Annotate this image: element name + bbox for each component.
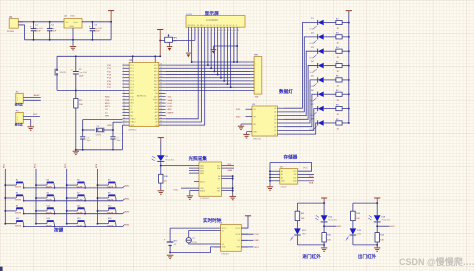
junction key 16 column xyxy=(97,223,99,225)
wire U4 VDD xyxy=(174,188,200,191)
net labels left lower xyxy=(105,97,111,118)
junction entry IR bottom xyxy=(323,244,325,246)
wire LCD backlight K xyxy=(233,31,235,62)
svg-text:SDA: SDA xyxy=(228,169,233,172)
svg-text:VCC1: VCC1 xyxy=(235,228,240,230)
svg-text:SW-PB: SW-PB xyxy=(15,187,22,189)
svg-text:D7: D7 xyxy=(229,25,231,27)
svg-text:PCF8591: PCF8591 xyxy=(201,198,210,200)
wire key 10 column stub xyxy=(36,210,47,212)
svg-text:继电器: 继电器 xyxy=(14,122,23,126)
wire key 11 column stub xyxy=(67,210,78,212)
svg-text:19: 19 xyxy=(123,120,125,122)
svg-text:WR: WR xyxy=(105,116,109,118)
wire entry IR output net xyxy=(324,226,342,228)
svg-text:Q6: Q6 xyxy=(274,130,276,132)
svg-text:XTAL2: XTAL2 xyxy=(130,118,135,121)
ic U3 led driver body xyxy=(252,104,278,141)
pins U4 analog inputs xyxy=(189,166,199,174)
svg-text:A13: A13 xyxy=(155,108,158,111)
svg-text:存储器: 存储器 xyxy=(284,154,298,161)
svg-text:RXD: RXD xyxy=(105,97,110,99)
wire LCD VSS down xyxy=(187,31,189,52)
svg-text:A14: A14 xyxy=(155,105,158,108)
junction key 7 column xyxy=(66,197,68,199)
wire P3 pin2 to gnd xyxy=(23,120,30,127)
svg-text:74HC595: 74HC595 xyxy=(253,138,262,140)
wire U4 SDA xyxy=(222,168,235,172)
junction key 2 bus xyxy=(54,187,56,189)
wire entry IR top xyxy=(297,202,324,204)
wire LCD VDD down xyxy=(191,31,193,62)
svg-text:X2: X2 xyxy=(222,244,224,246)
wire exit IR R to LED xyxy=(352,221,354,229)
wire U4 AGND xyxy=(190,191,199,196)
svg-text:SW-PB: SW-PB xyxy=(77,187,84,189)
wire exit IR output net xyxy=(377,226,395,228)
svg-text:LED: LED xyxy=(310,29,314,31)
label display block xyxy=(205,10,220,17)
wire U6 SCLK xyxy=(241,234,259,236)
svg-text:10K: 10K xyxy=(356,218,360,220)
wire key row 3 bus xyxy=(24,213,123,215)
net label column 2 xyxy=(34,163,36,168)
corner mark xyxy=(0,267,3,271)
net label row 1 xyxy=(123,186,130,188)
svg-text:SW-PB: SW-PB xyxy=(15,225,22,227)
svg-text:KG1: KG1 xyxy=(337,226,342,228)
svg-text:SW-PB: SW-PB xyxy=(60,72,67,74)
LED D6 xyxy=(310,90,324,103)
wires U3 outputs to LEDs xyxy=(284,23,318,135)
svg-text:Photo Sen: Photo Sen xyxy=(166,159,175,162)
svg-text:KG2: KG2 xyxy=(390,226,395,228)
wire XTAL2 from MCU xyxy=(113,121,122,123)
svg-text:E: E xyxy=(203,25,204,27)
svg-text:C7: C7 xyxy=(117,137,119,139)
svg-text:Q0: Q0 xyxy=(274,108,276,110)
label light sensing xyxy=(188,155,208,162)
capacitor C1 100uF xyxy=(30,22,44,40)
svg-text:INT1: INT1 xyxy=(130,103,134,105)
wire R8 to VCC rail xyxy=(342,108,349,110)
svg-text:X1: X1 xyxy=(222,230,224,232)
wire key 3 column stub xyxy=(67,184,78,186)
junction cap bottom xyxy=(75,89,77,91)
svg-text:A8: A8 xyxy=(156,124,158,127)
svg-text:SW-PB: SW-PB xyxy=(15,200,22,202)
svg-text:XTAL1: XTAL1 xyxy=(130,121,135,124)
svg-text:A15: A15 xyxy=(155,102,158,105)
svg-text:30: 30 xyxy=(160,95,162,97)
lcd display LCD1602 body xyxy=(186,16,245,28)
svg-text:DAT: DAT xyxy=(255,239,260,242)
svg-text:AD2: AD2 xyxy=(154,73,157,76)
label exit IR xyxy=(358,253,377,260)
junction key 6 bus xyxy=(54,200,56,202)
svg-text:KG2: KG2 xyxy=(236,116,241,118)
svg-text:26: 26 xyxy=(160,108,162,110)
svg-text:34: 34 xyxy=(160,83,162,85)
svg-text:LED: LED xyxy=(357,234,361,236)
svg-text:40: 40 xyxy=(160,64,162,66)
wire key row 4 bus xyxy=(24,226,123,228)
svg-text:LED: LED xyxy=(310,115,314,117)
wire U2 GND stem xyxy=(72,28,74,46)
wire photodiode to R xyxy=(160,161,162,174)
pin U3 input 1 xyxy=(236,109,252,111)
wire LED D3 to resistor xyxy=(324,50,336,52)
svg-text:P1.3: P1.3 xyxy=(130,74,134,76)
svg-text:Q7: Q7 xyxy=(274,134,276,136)
svg-text:39: 39 xyxy=(160,67,162,69)
microcontroller U1 right pins 21-40 xyxy=(153,64,166,127)
wire LED D2 to resistor xyxy=(324,36,336,38)
net label column 1 xyxy=(4,163,6,168)
svg-text:INT0: INT0 xyxy=(105,103,111,105)
wire battery to ground rail xyxy=(169,245,171,252)
svg-text:C6: C6 xyxy=(87,137,89,139)
junction exit IR output xyxy=(376,225,378,227)
wire exit IR bottom rail xyxy=(353,244,377,246)
capacitor C5 10uF reset xyxy=(71,56,88,90)
wire U5 WP xyxy=(298,173,314,175)
svg-text:KG2: KG2 xyxy=(168,106,173,108)
svg-text:SW-PB: SW-PB xyxy=(46,200,53,202)
junction key 12 column xyxy=(97,210,99,212)
svg-text:38: 38 xyxy=(160,70,162,72)
junction U2 gnd rail xyxy=(72,39,74,41)
junction key 2 column xyxy=(35,184,37,186)
wire LED D4 to resistor xyxy=(324,65,336,67)
svg-text:T0: T0 xyxy=(130,106,132,108)
svg-text:2: 2 xyxy=(17,119,18,121)
resistor R3 1K xyxy=(336,33,342,45)
wire R7 to VCC rail xyxy=(342,93,349,95)
svg-text:12: 12 xyxy=(123,98,125,100)
svg-text:AD3: AD3 xyxy=(154,76,157,79)
wire P2 pin1 xyxy=(23,95,40,97)
junction rail row 2 xyxy=(348,36,350,38)
wire R9 to VCC rail xyxy=(342,122,349,124)
switch S11 key xyxy=(77,205,86,214)
wire exit IR photo to R xyxy=(376,222,378,233)
wire VCC to photodiode xyxy=(160,141,162,156)
resistor R7 1K xyxy=(336,90,342,102)
svg-text:AD6: AD6 xyxy=(154,86,157,89)
wire LED D6 to resistor xyxy=(324,93,336,95)
svg-text:GND: GND xyxy=(70,26,75,28)
LED D3 xyxy=(310,47,324,60)
junction C2 top xyxy=(49,21,51,23)
junction C3 bottom xyxy=(91,39,93,41)
wire key 9 column stub xyxy=(5,210,16,212)
svg-text:10K: 10K xyxy=(301,218,305,220)
wire R4 to VCC rail xyxy=(342,50,349,52)
svg-text:D1: D1 xyxy=(210,25,212,27)
svg-text:37: 37 xyxy=(160,73,162,75)
wires LCD data D0-D7 verticals xyxy=(208,31,231,87)
svg-text:7805: 7805 xyxy=(70,15,76,17)
power VCC arrow entry IR xyxy=(321,198,327,203)
wire entry IR photo upper xyxy=(323,203,325,215)
pins U6 right xyxy=(241,228,248,247)
label data lights xyxy=(279,88,293,95)
wire LCD RW xyxy=(166,31,202,122)
wire reset loop top xyxy=(57,55,160,57)
junction key 11 column xyxy=(66,210,68,212)
svg-text:A1: A1 xyxy=(218,177,220,180)
junction crystal right xyxy=(112,129,114,131)
junction rail row 5 xyxy=(348,79,350,81)
junction key 6 column xyxy=(35,197,37,199)
ground below U5 left xyxy=(267,187,273,190)
wire right vertical rail xyxy=(110,22,112,40)
svg-text:P1.6: P1.6 xyxy=(130,84,134,86)
LED D7 xyxy=(310,104,324,117)
wire entry IR R to LED xyxy=(296,221,298,229)
svg-text:SW-PB: SW-PB xyxy=(107,225,114,227)
switch S12 key xyxy=(107,205,116,214)
resistor R11 10K entry IR xyxy=(295,211,305,220)
wire LED D5 to resistor xyxy=(324,79,336,81)
adc U4 PCF8591 body xyxy=(199,160,222,200)
ground below U3 xyxy=(243,135,249,138)
regulator U2 7805 xyxy=(64,15,82,28)
svg-text:Vout: Vout xyxy=(74,21,78,24)
wire exit IR top xyxy=(353,202,377,204)
svg-text:LED: LED xyxy=(310,72,314,74)
microcontroller U1 AT89C52 body xyxy=(129,59,159,126)
svg-text:Q3: Q3 xyxy=(274,119,276,121)
svg-text:AT89C52: AT89C52 xyxy=(137,95,147,98)
junction RP1 common xyxy=(236,45,238,47)
wire P1 pin2 to GND rail xyxy=(21,25,25,40)
svg-text:25: 25 xyxy=(160,111,162,113)
wire key 7 column stub xyxy=(67,197,78,199)
wire entry IR left upper xyxy=(296,203,298,211)
svg-text:SCL: SCL xyxy=(293,177,296,179)
svg-text:33: 33 xyxy=(160,86,162,88)
svg-text:D0: D0 xyxy=(207,25,209,27)
switch S16 key xyxy=(107,218,116,227)
junction C3 top xyxy=(91,21,93,23)
svg-text:DS1302: DS1302 xyxy=(222,253,230,255)
power VCC bar LED rail xyxy=(346,11,352,13)
wire R5 to VCC rail xyxy=(342,65,349,67)
wire U4 SCL xyxy=(222,164,235,166)
capacitor C2 0.1uF xyxy=(47,22,57,40)
resistor R10 1K xyxy=(159,174,169,183)
svg-text:18: 18 xyxy=(123,117,125,119)
net labels right of U1 xyxy=(168,97,174,115)
wires U5 address pins to gnd bus xyxy=(269,170,280,182)
IR emitter LED entry IR xyxy=(290,228,306,240)
svg-text:进门红外: 进门红外 xyxy=(302,253,321,260)
svg-text:31: 31 xyxy=(160,92,162,94)
svg-text:11: 11 xyxy=(123,95,125,97)
svg-text:0.1uF: 0.1uF xyxy=(51,31,57,33)
svg-text:Q5: Q5 xyxy=(274,126,276,128)
junction entry IR top xyxy=(323,202,325,204)
junction R1 gnd xyxy=(75,149,77,151)
svg-text:35: 35 xyxy=(160,79,162,81)
wires P0 data rows xyxy=(166,65,251,90)
photodiode exit IR xyxy=(368,215,390,222)
svg-text:15: 15 xyxy=(234,30,236,32)
svg-text:蜂鸣器: 蜂鸣器 xyxy=(15,103,23,107)
wire R1 to ground xyxy=(75,108,77,150)
resistor R12 10K entry IR xyxy=(322,233,332,242)
junction key 15 bus xyxy=(84,226,86,228)
svg-text:13: 13 xyxy=(123,102,125,104)
resistor network RP1 xyxy=(251,55,262,99)
svg-text:SW-PB: SW-PB xyxy=(77,200,84,202)
resistor R2 1K xyxy=(336,18,342,30)
label entry IR xyxy=(302,253,321,260)
junction key 9 column xyxy=(4,210,6,212)
wire key 1 column stub xyxy=(5,184,16,186)
svg-text:21: 21 xyxy=(160,124,162,126)
wire reset loop left lower xyxy=(56,75,58,90)
svg-text:AIN3: AIN3 xyxy=(200,172,204,175)
svg-text:VL: VL xyxy=(194,25,196,27)
svg-text:SDA: SDA xyxy=(168,99,173,102)
svg-text:P1.1: P1.1 xyxy=(130,68,134,70)
svg-text:DC005: DC005 xyxy=(7,31,15,33)
ground below U4 right xyxy=(230,196,236,199)
pin U4 AOUT xyxy=(194,181,199,183)
junction key 14 bus xyxy=(54,226,56,228)
wire key 8 column stub xyxy=(98,197,109,199)
net label row 3 xyxy=(123,212,130,214)
junction key 4 column xyxy=(97,184,99,186)
svg-text:BEEP: BEEP xyxy=(168,112,174,114)
wire LCD RS xyxy=(166,31,199,118)
ground below U2 xyxy=(70,47,76,50)
wire crystal ground rail xyxy=(76,149,123,151)
svg-text:KG1: KG1 xyxy=(236,109,241,111)
junction key 8 column xyxy=(97,197,99,199)
wire entry IR gnd stem xyxy=(323,245,325,248)
ground arrow below RP2 xyxy=(167,42,172,50)
photodiode D9 xyxy=(152,155,175,161)
wire key row 2 bus xyxy=(24,200,123,202)
wire entry IR photo to R xyxy=(323,222,325,233)
power VCC arrow LCD xyxy=(157,30,163,58)
svg-text:32: 32 xyxy=(160,89,162,91)
svg-text:P1.2: P1.2 xyxy=(130,71,134,73)
svg-text:TXD: TXD xyxy=(105,100,110,102)
wire key 13 column stub xyxy=(5,223,16,225)
svg-text:12: 12 xyxy=(224,30,226,32)
svg-text:A9: A9 xyxy=(156,121,158,124)
svg-text:数据灯: 数据灯 xyxy=(279,88,293,95)
svg-text:A2: A2 xyxy=(281,176,283,179)
wire LCD backlight A xyxy=(214,31,238,49)
svg-text:Cap Pol1: Cap Pol1 xyxy=(94,28,103,30)
pin top stub 2 xyxy=(154,55,156,62)
capacitor C7 30pF xyxy=(110,137,121,150)
resistor R1 10K xyxy=(74,90,84,108)
svg-text:22: 22 xyxy=(160,120,162,122)
svg-text:T1: T1 xyxy=(130,109,132,111)
wire exit IR left upper xyxy=(352,203,354,211)
junction key 11 bus xyxy=(84,213,86,215)
junction rail row 3 xyxy=(348,50,350,52)
svg-text:A12: A12 xyxy=(155,111,158,114)
switch S14 key xyxy=(46,218,55,227)
capacitor C6 30pF xyxy=(80,137,91,150)
svg-text:1: 1 xyxy=(17,97,18,99)
junction rail row 8 xyxy=(348,122,350,124)
net label row 2 xyxy=(123,199,130,201)
svg-text:AD4: AD4 xyxy=(154,80,157,83)
svg-text:SDA: SDA xyxy=(309,182,314,185)
lcd pins 1-16 xyxy=(188,27,239,32)
svg-text:RST: RST xyxy=(130,90,133,92)
switch S2 key xyxy=(46,180,55,189)
svg-text:P1.7: P1.7 xyxy=(130,87,134,89)
svg-text:光照采集: 光照采集 xyxy=(188,155,208,162)
svg-text:按键: 按键 xyxy=(54,227,64,234)
wire LED D1 to resistor xyxy=(324,22,336,24)
junction key 5 column xyxy=(4,197,6,199)
wire entry IR left lower xyxy=(296,235,298,245)
microcontroller U1 left pins 1-20 xyxy=(122,64,135,127)
svg-text:1: 1 xyxy=(256,64,257,66)
resistor R13 10K exit IR xyxy=(351,211,361,220)
wire reset loop left upper xyxy=(56,56,58,69)
svg-text:17: 17 xyxy=(123,114,125,116)
svg-text:36: 36 xyxy=(160,76,162,78)
svg-text:16: 16 xyxy=(237,30,239,32)
junction entry IR output xyxy=(323,225,325,227)
label MCU type below xyxy=(129,129,137,132)
junction exit IR bottom xyxy=(376,244,378,246)
junction key 5 bus xyxy=(23,200,25,202)
svg-text:LED: LED xyxy=(310,86,314,88)
svg-text:A1: A1 xyxy=(281,173,283,176)
svg-text:LCD1602: LCD1602 xyxy=(206,18,218,22)
LED D2 xyxy=(310,32,324,45)
switch S9 key xyxy=(15,205,24,214)
junction crystal gnd left xyxy=(82,149,84,151)
wire P3 pin1 xyxy=(23,114,40,116)
wire U5 VCC loop xyxy=(270,163,312,172)
svg-text:A10: A10 xyxy=(155,118,158,121)
resistor R5 1K xyxy=(336,61,342,73)
switch S8 key xyxy=(107,192,116,201)
svg-text:D2: D2 xyxy=(213,25,215,27)
wire U5 SCL xyxy=(298,176,314,178)
pins U3 outputs Q0-Q7 xyxy=(278,108,285,134)
ground arrow U3 MR xyxy=(238,126,244,129)
svg-text:AD0: AD0 xyxy=(154,67,157,70)
svg-text:D5: D5 xyxy=(223,25,225,27)
svg-text:CLK: CLK xyxy=(255,234,260,236)
svg-text:RST: RST xyxy=(237,247,240,249)
wire key 16 column stub xyxy=(98,223,109,225)
svg-text:SW-PB: SW-PB xyxy=(107,187,114,189)
svg-text:Q4: Q4 xyxy=(274,123,276,125)
resistor R4 1K xyxy=(336,47,342,59)
junctions P0 staircase xyxy=(207,64,232,88)
wire R6 to VCC rail xyxy=(342,79,349,81)
label memory xyxy=(284,154,298,161)
power VCC bar U6 xyxy=(245,215,251,217)
wire AIN0 net xyxy=(161,165,194,167)
